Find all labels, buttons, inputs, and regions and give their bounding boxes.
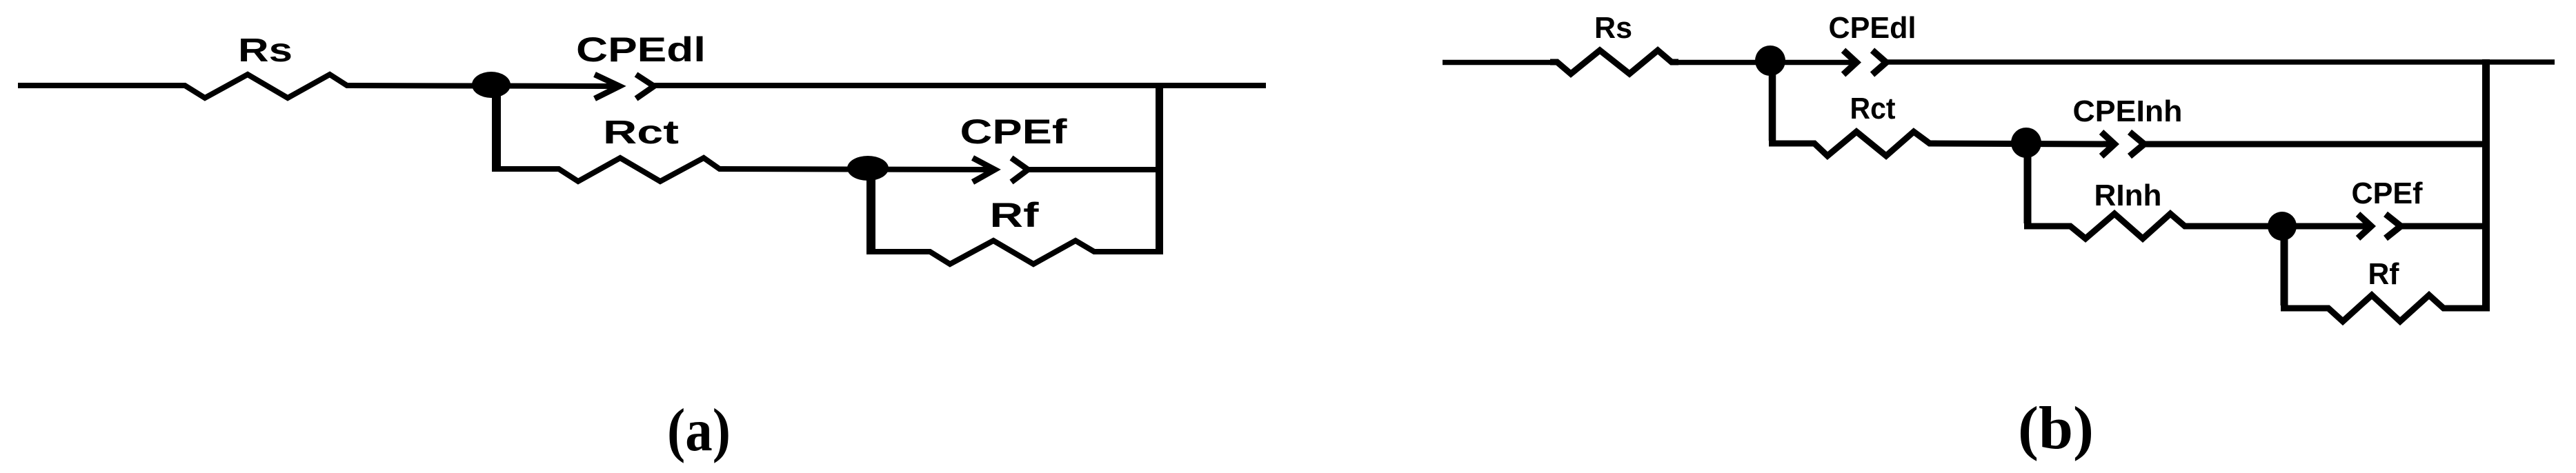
wire: circuit (b) main line, left segment [1443,60,1557,66]
wire: circuit (b) right vertical rail [2482,59,2490,311]
svg-text:Rf: Rf [990,196,1039,234]
resistor Rf (circuit b) zigzag [2321,295,2450,321]
svg-text:CPEInh: CPEInh [2073,94,2183,128]
capacitor CPEdl (circuit b) chevron 1 [1843,50,1856,74]
wire: circuit (a) vertical drop from node A1 [492,85,501,167]
resistor Rct (circuit a) zigzag [552,158,726,181]
svg-text:CPEdl: CPEdl [1829,11,1916,45]
wire: circuit (a) Rct branch to CPEf [720,169,993,170]
wire: circuit (a) CPEf branch to right rail [1028,167,1163,172]
svg-text:Rct: Rct [1850,92,1896,125]
resistor RInh (circuit b) zigzag [2063,214,2192,239]
wire: circuit (b) main line, middle segment to CPEdl [1672,60,1856,66]
resistor Rs (circuit a) zigzag [178,74,354,98]
wire: circuit (b) CPEf branch to right rail [2401,223,2490,230]
resistor Rs (circuit b) zigzag [1550,50,1678,74]
wire: circuit (b) main line, right segment [1886,59,2555,65]
wire: circuit (a) main line, right segment [654,83,1266,88]
wire: circuit (b) Rf branch to right rail [2444,305,2490,312]
svg-text:Rs: Rs [238,32,293,69]
wire: circuit (a) right vertical rail [1156,83,1163,254]
node A2: junction dot after Rct [847,156,889,181]
wire: circuit (b) vertical drop from node B1 [1769,62,1776,141]
wire: circuit (b) CPEInh branch to right rail [2144,141,2490,148]
wire: circuit (a) main line, middle segment to CPEdl [347,85,620,86]
wire: circuit (a) main line, left segment [18,83,185,88]
capacitor CPEInh (circuit b) chevron 2 [2130,132,2144,157]
capacitor CPEf (circuit a) chevron 2 [1011,158,1028,182]
resistor Rf (circuit a) zigzag [923,241,1101,264]
svg-text:(b): (b) [2018,395,2094,462]
svg-text:RInh: RInh [2094,179,2162,212]
wire: circuit (b) vertical drop from node B2 [2024,143,2032,223]
capacitor CPEf (circuit b) chevron 2 [2386,214,2401,239]
capacitor CPEInh (circuit b) chevron 1 [2101,132,2114,157]
resistor Rct (circuit b) zigzag [1807,132,1936,156]
wire: circuit (b) Rf branch lead-in [2281,305,2328,312]
wire: circuit (b) RInh branch lead-in [2024,223,2070,230]
capacitor CPEdl (circuit a) chevron 1 [595,74,620,99]
node B2: junction dot after Rct [2011,128,2041,158]
node B3: junction dot after RInh [2268,212,2297,241]
svg-text:CPEf: CPEf [960,112,1067,151]
svg-text:Rf: Rf [2368,257,2399,291]
node A1: junction dot after Rs [472,72,511,98]
capacitor CPEf (circuit a) chevron 1 [973,158,995,182]
capacitor CPEdl (circuit b) chevron 2 [1872,50,1886,74]
wire: circuit (a) vertical drop from node A2 [866,169,875,249]
wire: circuit (b) RInh branch to CPEf [2185,223,2371,230]
capacitor CPEdl (circuit a) chevron 2 [636,74,654,99]
wire: circuit (a) Rf branch to right rail [1094,249,1163,254]
wire: circuit (a) Rct branch lead-in [492,166,559,172]
svg-text:CPEdl: CPEdl [576,30,706,69]
wire: circuit (b) vertical drop from node B3 [2281,226,2288,305]
svg-text:(a): (a) [667,397,731,464]
node B1: junction dot after Rs [1755,46,1785,76]
wire: circuit (b) Rct branch lead-in [1769,141,1814,147]
wire: circuit (b) Rct branch to CPEInh [1930,143,2114,144]
capacitor CPEf (circuit b) chevron 1 [2358,214,2371,239]
svg-text:Rs: Rs [1594,11,1632,45]
wire: circuit (a) Rf branch lead-in [866,249,930,254]
svg-text:CPEf: CPEf [2352,177,2423,210]
svg-text:Rct: Rct [603,114,679,151]
